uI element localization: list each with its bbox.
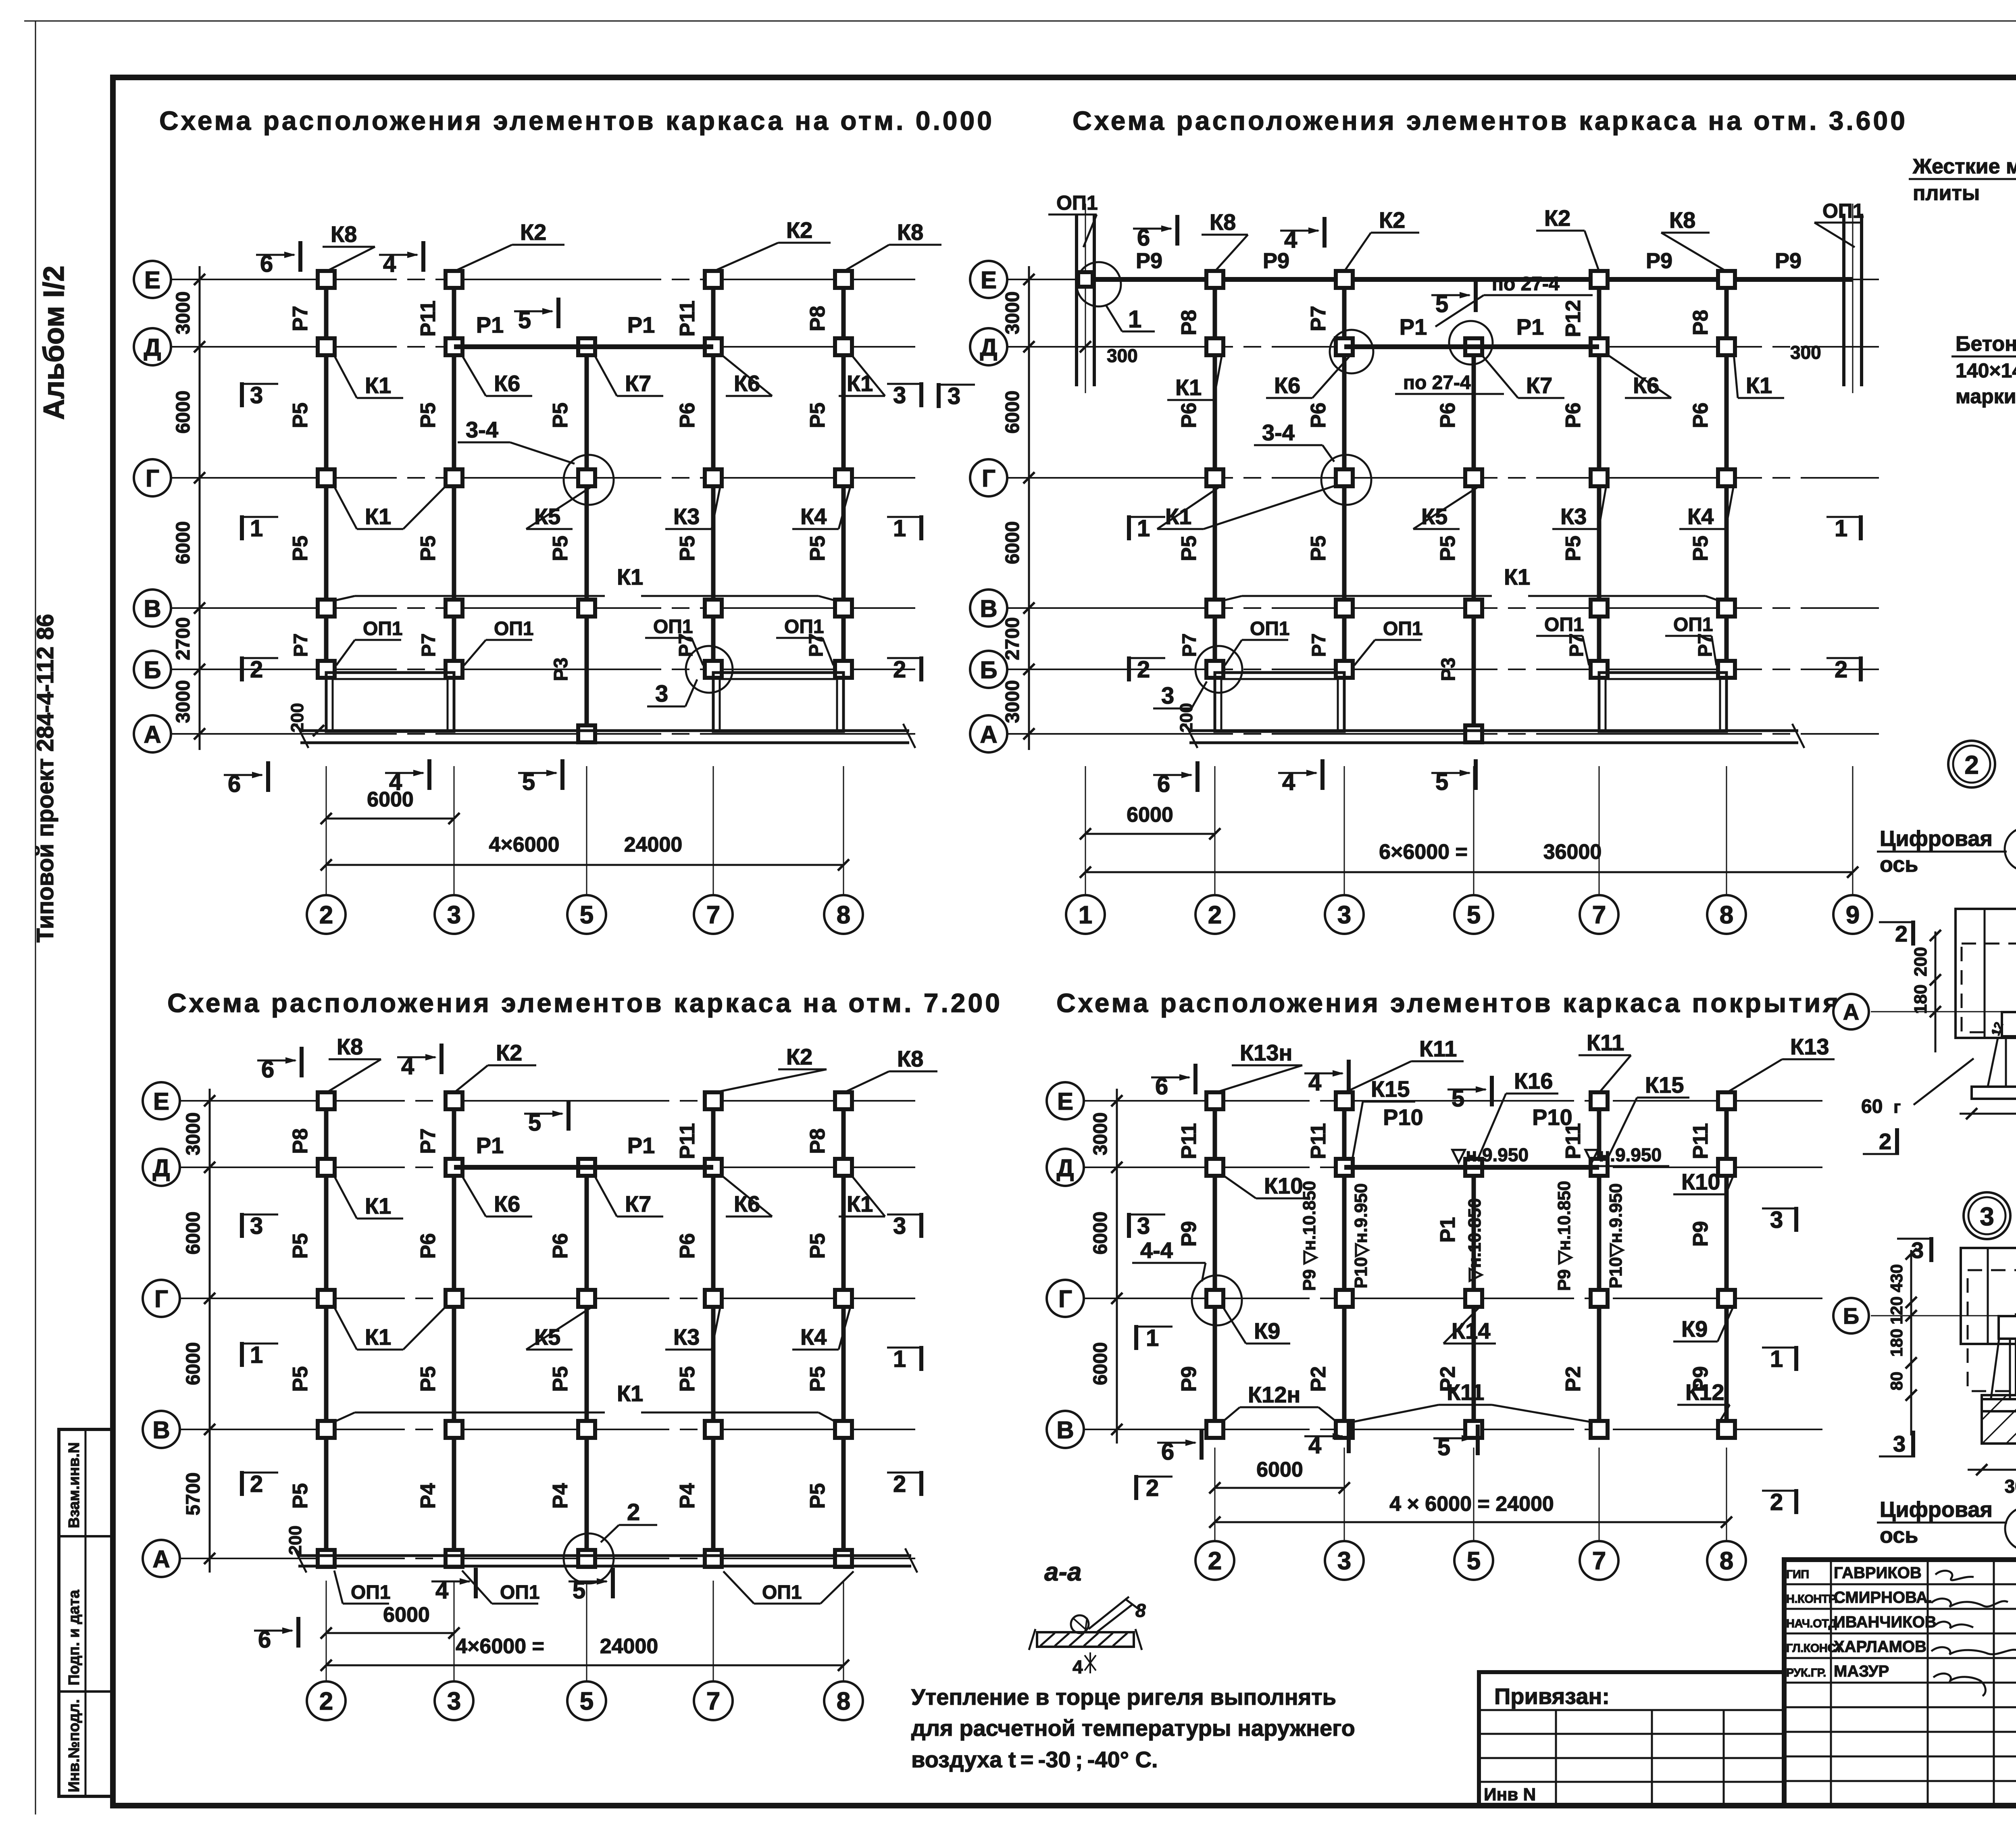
svg-text:Р5: Р5 <box>806 535 829 561</box>
svg-text:Д: Д <box>980 334 998 361</box>
svg-text:К1: К1 <box>365 1324 391 1350</box>
svg-text:3: 3 <box>1337 901 1351 929</box>
svg-text:3: 3 <box>447 1687 461 1715</box>
svg-text:1: 1 <box>1137 515 1150 542</box>
svg-text:В: В <box>980 595 997 622</box>
svg-text:Р9: Р9 <box>1177 1221 1201 1247</box>
PLAN 2: framing plan at elev 3.600 <box>1007 279 1879 280</box>
svg-text:3-4: 3-4 <box>466 417 498 442</box>
svg-text:К6: К6 <box>494 371 520 396</box>
svg-text:3: 3 <box>655 681 668 707</box>
svg-text:Р5: Р5 <box>417 535 440 561</box>
svg-text:4: 4 <box>401 1053 414 1079</box>
svg-text:1: 1 <box>893 515 906 542</box>
svg-text:Г: Г <box>1058 1285 1072 1312</box>
svg-text:6: 6 <box>228 771 241 797</box>
svg-text:Р1: Р1 <box>1436 1217 1460 1243</box>
svg-text:МАЗУР: МАЗУР <box>1834 1662 1889 1680</box>
svg-text:К4: К4 <box>1687 504 1714 529</box>
DETAIL node 3 <box>1964 1192 2010 1239</box>
svg-text:марки 200: марки 200 <box>1956 385 2016 408</box>
svg-text:Р5: Р5 <box>417 402 440 428</box>
svg-text:Е: Е <box>981 267 997 294</box>
svg-text:Р11: Р11 <box>1307 1123 1330 1159</box>
svg-text:3: 3 <box>447 901 461 929</box>
svg-text:300: 300 <box>1790 342 1821 363</box>
svg-text:6000: 6000 <box>367 788 414 811</box>
svg-text:для расчетной температуры нару: для расчетной температуры наружнего <box>911 1715 1355 1741</box>
svg-text:К1: К1 <box>847 1191 873 1217</box>
svg-text:6: 6 <box>261 1056 274 1083</box>
svg-text:Р7: Р7 <box>1307 306 1330 331</box>
svg-text:5: 5 <box>1452 1085 1464 1112</box>
svg-text:Р4: Р4 <box>676 1483 699 1509</box>
svg-text:К4: К4 <box>800 504 827 529</box>
svg-text:А: А <box>980 721 997 748</box>
svg-text:6000: 6000 <box>383 1603 430 1627</box>
svg-text:2: 2 <box>250 1471 263 1497</box>
svg-text:5: 5 <box>1467 1547 1481 1575</box>
svg-text:Г: Г <box>146 465 159 492</box>
svg-text:1: 1 <box>893 1346 906 1372</box>
svg-text:200: 200 <box>287 703 307 732</box>
svg-text:Р5: Р5 <box>1177 535 1201 561</box>
svg-text:3000: 3000 <box>1090 1112 1111 1156</box>
svg-text:ОП1: ОП1 <box>1056 192 1098 214</box>
svg-text:Г: Г <box>154 1285 168 1312</box>
svg-text:К4: К4 <box>800 1324 827 1350</box>
svg-text:▽н.9.950: ▽н.9.950 <box>1451 1144 1529 1165</box>
svg-text:г: г <box>1893 1097 1901 1117</box>
svg-text:Р10: Р10 <box>1383 1104 1423 1130</box>
svg-text:5: 5 <box>522 769 535 795</box>
svg-text:Н.КОНТР.: Н.КОНТР. <box>1786 1593 1837 1606</box>
svg-text:Р5: Р5 <box>549 402 572 428</box>
PLAN 4: roof framing plan <box>1084 1100 1822 1102</box>
svg-text:2: 2 <box>1895 921 1908 946</box>
svg-text:К8: К8 <box>331 221 357 247</box>
svg-text:Р6: Р6 <box>1177 402 1201 428</box>
svg-text:2: 2 <box>1770 1489 1783 1515</box>
svg-text:К2: К2 <box>496 1040 522 1065</box>
svg-text:3000: 3000 <box>1002 292 1023 335</box>
svg-text:Цифровая: Цифровая <box>1880 827 1993 851</box>
svg-text:Р9: Р9 <box>1646 249 1672 273</box>
svg-text:Р6: Р6 <box>676 402 699 428</box>
svg-text:Схема расположения элементов к: Схема расположения элементов каркаса на … <box>159 106 994 135</box>
svg-text:ОП1: ОП1 <box>1673 614 1713 635</box>
svg-text:В: В <box>144 595 161 622</box>
svg-text:К16: К16 <box>1514 1068 1553 1094</box>
svg-text:К12: К12 <box>1685 1379 1724 1405</box>
svg-text:К1: К1 <box>1175 375 1202 400</box>
svg-text:Цифровая: Цифровая <box>1880 1498 1993 1522</box>
svg-text:Жесткие минераловат.: Жесткие минераловат. <box>1912 155 2016 178</box>
svg-text:К15: К15 <box>1645 1072 1684 1098</box>
svg-text:1: 1 <box>1128 306 1141 333</box>
svg-text:К12н: К12н <box>1248 1382 1300 1407</box>
svg-text:2: 2 <box>319 1687 333 1715</box>
svg-text:4×6000: 4×6000 <box>489 833 560 856</box>
svg-text:80: 80 <box>1887 1372 1906 1391</box>
svg-text:Р7: Р7 <box>289 306 312 331</box>
svg-text:ОП1: ОП1 <box>351 1582 391 1603</box>
svg-text:Р5: Р5 <box>806 1483 829 1509</box>
svg-text:▽н.9.950: ▽н.9.950 <box>1584 1144 1662 1165</box>
svg-text:3: 3 <box>1911 1237 1924 1263</box>
svg-text:Р6: Р6 <box>1689 402 1712 428</box>
svg-text:6000: 6000 <box>1256 1458 1303 1481</box>
svg-text:Р7: Р7 <box>417 1128 440 1154</box>
svg-text:1: 1 <box>1770 1346 1783 1372</box>
svg-text:6000: 6000 <box>183 1212 204 1255</box>
svg-text:Р10▽н.9.950: Р10▽н.9.950 <box>1351 1183 1371 1288</box>
svg-text:по 27-4: по 27-4 <box>1492 273 1560 295</box>
svg-text:Р7: Р7 <box>418 633 439 657</box>
svg-text:Г: Г <box>982 465 996 492</box>
svg-text:9: 9 <box>1846 901 1860 929</box>
svg-text:6000: 6000 <box>1002 391 1023 434</box>
svg-text:5: 5 <box>580 1687 594 1715</box>
svg-text:7: 7 <box>706 1687 720 1715</box>
svg-text:плиты: плиты <box>1913 181 1980 205</box>
svg-text:по 27-4: по 27-4 <box>1403 372 1471 394</box>
svg-text:ОП1: ОП1 <box>1250 618 1290 640</box>
svg-text:Р5: Р5 <box>806 1233 829 1259</box>
svg-text:К1: К1 <box>365 1193 391 1219</box>
svg-text:Схема расположения элементов к: Схема расположения элементов каркаса пок… <box>1056 988 1841 1018</box>
svg-text:5: 5 <box>518 307 531 333</box>
svg-text:Р5: Р5 <box>417 1366 440 1392</box>
svg-text:Р5: Р5 <box>1562 535 1585 561</box>
svg-text:К11: К11 <box>1447 1379 1484 1405</box>
svg-text:140×140×520 из бетона: 140×140×520 из бетона <box>1956 359 2016 382</box>
svg-text:Р5: Р5 <box>806 1366 829 1392</box>
svg-text:Типовой проект 284-4-112 86: Типовой проект 284-4-112 86 <box>32 614 58 943</box>
svg-text:Р1: Р1 <box>627 1133 655 1158</box>
svg-text:ОП1: ОП1 <box>653 616 693 637</box>
svg-text:К2: К2 <box>786 1044 812 1069</box>
svg-text:ОП1: ОП1 <box>1544 614 1584 635</box>
svg-text:ОП1: ОП1 <box>1822 200 1864 222</box>
svg-text:К13н: К13н <box>1240 1040 1292 1065</box>
svg-text:8: 8 <box>837 1687 850 1715</box>
svg-text:К7: К7 <box>625 1191 651 1217</box>
svg-text:Р10: Р10 <box>1532 1104 1572 1130</box>
svg-text:К1: К1 <box>617 1381 643 1406</box>
svg-text:6000: 6000 <box>1090 1212 1111 1255</box>
svg-text:Р10▽н.9.950: Р10▽н.9.950 <box>1606 1183 1626 1288</box>
svg-text:К15: К15 <box>1371 1076 1410 1102</box>
svg-text:4: 4 <box>383 251 396 277</box>
svg-text:6000: 6000 <box>1127 803 1173 827</box>
svg-text:К11: К11 <box>1419 1036 1457 1061</box>
svg-text:Е: Е <box>144 267 160 294</box>
svg-text:К10: К10 <box>1264 1173 1303 1198</box>
svg-text:К6: К6 <box>1633 373 1659 398</box>
svg-text:3000: 3000 <box>173 680 194 723</box>
svg-text:Р9: Р9 <box>1177 1366 1201 1392</box>
svg-text:6000: 6000 <box>1090 1342 1111 1385</box>
svg-text:Р11: Р11 <box>676 1123 699 1159</box>
svg-text:Р3: Р3 <box>1438 658 1459 681</box>
svg-text:5: 5 <box>1435 291 1448 317</box>
svg-text:200: 200 <box>1911 947 1931 976</box>
svg-text:Подп. и дата: Подп. и дата <box>66 1589 83 1685</box>
svg-text:3: 3 <box>250 1213 263 1239</box>
svg-text:180: 180 <box>1887 1329 1906 1357</box>
svg-text:К8: К8 <box>897 1046 923 1071</box>
svg-text:К8: К8 <box>1669 207 1695 233</box>
svg-text:5: 5 <box>580 901 594 929</box>
svg-text:В: В <box>152 1417 170 1444</box>
svg-text:Р11: Р11 <box>417 300 440 337</box>
svg-text:3: 3 <box>893 1213 906 1239</box>
svg-text:6: 6 <box>258 1627 271 1653</box>
svg-text:3000: 3000 <box>173 292 194 335</box>
PLAN 1: framing plan at elev 0.000 <box>171 279 915 280</box>
svg-text:Д: Д <box>144 334 161 361</box>
svg-text:3: 3 <box>1337 1547 1351 1575</box>
svg-text:4: 4 <box>1073 1656 1083 1677</box>
svg-text:24000: 24000 <box>624 833 683 856</box>
svg-text:300: 300 <box>2005 1476 2016 1497</box>
svg-text:2: 2 <box>319 901 333 929</box>
svg-text:Р6: Р6 <box>549 1233 572 1259</box>
svg-text:6000: 6000 <box>173 521 194 565</box>
svg-text:ХАРЛАМОВ: ХАРЛАМОВ <box>1834 1638 1926 1656</box>
svg-text:2: 2 <box>1208 1547 1222 1575</box>
svg-text:Р1: Р1 <box>627 312 655 337</box>
svg-text:2: 2 <box>1879 1129 1891 1154</box>
svg-text:НАЧ.ОТД.: НАЧ.ОТД. <box>1786 1617 1839 1630</box>
svg-text:Р1: Р1 <box>1400 314 1427 340</box>
svg-text:Р8: Р8 <box>806 1128 829 1154</box>
svg-text:2: 2 <box>627 1499 640 1525</box>
svg-text:7: 7 <box>706 901 720 929</box>
svg-text:4: 4 <box>1282 769 1295 795</box>
svg-text:5: 5 <box>1437 1434 1450 1460</box>
DETAIL node 2 <box>1948 741 1995 787</box>
svg-text:К6: К6 <box>494 1191 520 1217</box>
svg-text:К3: К3 <box>673 504 700 529</box>
svg-text:К11: К11 <box>1587 1030 1624 1055</box>
svg-text:Р11: Р11 <box>676 300 699 337</box>
svg-text:Р6: Р6 <box>417 1233 440 1259</box>
left attached GOST stamp table <box>59 1429 113 1796</box>
svg-text:Взам.инв.N: Взам.инв.N <box>66 1442 83 1528</box>
svg-text:Р5: Р5 <box>289 1366 312 1392</box>
svg-text:а-а: а-а <box>1044 1557 1082 1586</box>
svg-text:7: 7 <box>1592 1547 1606 1575</box>
privyazan block <box>1479 1672 1784 1806</box>
svg-text:6: 6 <box>1137 225 1150 251</box>
svg-text:1: 1 <box>1835 515 1847 542</box>
svg-text:5700: 5700 <box>183 1473 204 1516</box>
svg-text:К3: К3 <box>1560 504 1587 529</box>
svg-text:Р4: Р4 <box>549 1483 572 1509</box>
svg-text:Р1: Р1 <box>476 312 504 337</box>
svg-text:ОП1: ОП1 <box>762 1582 802 1603</box>
svg-text:Р11: Р11 <box>1689 1123 1712 1159</box>
svg-text:4: 4 <box>1308 1432 1321 1458</box>
svg-text:Р5: Р5 <box>289 402 312 428</box>
svg-text:Р5: Р5 <box>1689 535 1712 561</box>
svg-text:Схема расположения элементов к: Схема расположения элементов каркаса на … <box>167 988 1002 1018</box>
svg-text:РУК.ГР.: РУК.ГР. <box>1786 1667 1826 1679</box>
svg-text:К1: К1 <box>617 564 643 590</box>
svg-text:Р7: Р7 <box>1308 633 1330 657</box>
svg-text:воздуха t = -30 ; -40° С.: воздуха t = -30 ; -40° С. <box>911 1747 1158 1772</box>
svg-text:Р5: Р5 <box>676 1366 699 1392</box>
svg-text:Р11: Р11 <box>1177 1123 1201 1159</box>
svg-text:К6: К6 <box>1274 373 1300 398</box>
svg-text:Р8: Р8 <box>1177 310 1201 335</box>
svg-text:180: 180 <box>1911 984 1931 1014</box>
svg-text:ОП1: ОП1 <box>1383 618 1423 640</box>
svg-text:4-4: 4-4 <box>1140 1237 1173 1263</box>
svg-text:К9: К9 <box>1254 1318 1280 1344</box>
svg-text:ось: ось <box>1880 852 1918 877</box>
svg-text:Р5: Р5 <box>289 1233 312 1259</box>
svg-text:2700: 2700 <box>1002 617 1023 660</box>
svg-text:Р6: Р6 <box>1436 402 1460 428</box>
svg-text:К2: К2 <box>1379 207 1405 233</box>
svg-text:К8: К8 <box>1210 209 1236 235</box>
svg-text:3000: 3000 <box>183 1112 204 1156</box>
svg-text:Р5: Р5 <box>549 535 572 561</box>
svg-text:А: А <box>144 721 161 748</box>
svg-text:Р2: Р2 <box>1562 1366 1585 1392</box>
sheet trim lines <box>24 21 2016 22</box>
svg-text:Бетонный вкладыш: Бетонный вкладыш <box>1956 332 2016 356</box>
svg-text:4: 4 <box>1308 1069 1321 1096</box>
svg-text:60: 60 <box>1861 1096 1883 1117</box>
svg-text:Инв N: Инв N <box>1484 1785 1536 1804</box>
svg-text:К1: К1 <box>1746 373 1772 398</box>
svg-text:6000: 6000 <box>173 391 194 434</box>
svg-text:К10: К10 <box>1681 1169 1720 1194</box>
svg-text:К7: К7 <box>1526 373 1552 398</box>
svg-text:Р5: Р5 <box>289 1483 312 1509</box>
svg-text:4×6000 =: 4×6000 = <box>456 1635 544 1658</box>
svg-text:Е: Е <box>153 1088 169 1115</box>
svg-text:6000: 6000 <box>183 1342 204 1385</box>
svg-text:К1: К1 <box>365 373 391 398</box>
svg-text:Утепление в торце ригеля выпол: Утепление в торце ригеля выполнять <box>911 1684 1336 1710</box>
svg-text:Р5: Р5 <box>549 1366 572 1392</box>
svg-text:Б: Б <box>980 656 997 683</box>
svg-text:120: 120 <box>1887 1296 1906 1325</box>
svg-text:А: А <box>152 1546 170 1573</box>
svg-text:Р8: Р8 <box>806 306 829 331</box>
svg-text:К2: К2 <box>786 217 812 243</box>
svg-text:Р6: Р6 <box>676 1233 699 1259</box>
svg-text:3000: 3000 <box>1002 680 1023 723</box>
svg-text:К1: К1 <box>365 504 391 529</box>
svg-text:2: 2 <box>250 656 263 683</box>
svg-text:К2: К2 <box>520 219 546 245</box>
svg-text:200: 200 <box>285 1525 305 1555</box>
svg-text:Привязан:: Привязан: <box>1494 1683 1610 1709</box>
svg-text:4 × 6000 = 24000: 4 × 6000 = 24000 <box>1389 1492 1554 1516</box>
svg-text:5: 5 <box>528 1110 541 1136</box>
svg-text:Р9: Р9 <box>1263 249 1289 273</box>
svg-text:2: 2 <box>1208 901 1222 929</box>
svg-text:Е: Е <box>1057 1088 1073 1115</box>
svg-text:300: 300 <box>1107 345 1138 366</box>
svg-text:2: 2 <box>1146 1475 1159 1501</box>
svg-text:В: В <box>1056 1417 1074 1444</box>
svg-text:3: 3 <box>1893 1431 1906 1456</box>
svg-text:ОП1: ОП1 <box>363 618 403 640</box>
svg-text:2: 2 <box>1964 750 1979 779</box>
svg-text:Р7: Р7 <box>290 633 312 657</box>
svg-text:8: 8 <box>837 901 850 929</box>
svg-text:Р9: Р9 <box>1689 1221 1712 1247</box>
svg-text:6: 6 <box>260 251 273 277</box>
svg-text:ИВАНЧИКОВ: ИВАНЧИКОВ <box>1834 1613 1937 1631</box>
svg-text:24000: 24000 <box>600 1635 658 1658</box>
svg-text:3: 3 <box>948 383 960 409</box>
svg-text:Р5: Р5 <box>1307 535 1330 561</box>
svg-text:К3: К3 <box>673 1324 700 1350</box>
svg-text:Р1: Р1 <box>476 1133 504 1158</box>
svg-text:4: 4 <box>435 1577 448 1604</box>
svg-text:К2: К2 <box>1544 205 1570 231</box>
svg-text:6: 6 <box>1157 771 1170 797</box>
svg-text:2: 2 <box>1137 656 1150 683</box>
svg-text:5: 5 <box>1467 901 1481 929</box>
svg-text:Д: Д <box>1057 1154 1074 1181</box>
svg-text:8: 8 <box>1720 1547 1733 1575</box>
svg-text:К9: К9 <box>1681 1316 1708 1342</box>
svg-text:Р5: Р5 <box>289 535 312 561</box>
svg-text:3: 3 <box>893 382 906 408</box>
svg-text:Р9: Р9 <box>1136 249 1162 273</box>
svg-text:А: А <box>1843 999 1859 1025</box>
svg-text:ОП1: ОП1 <box>784 616 824 637</box>
svg-text:3: 3 <box>1137 1213 1150 1239</box>
svg-text:6: 6 <box>1161 1439 1174 1465</box>
svg-text:2: 2 <box>1835 656 1847 683</box>
svg-text:Р5: Р5 <box>1436 535 1460 561</box>
svg-text:36000: 36000 <box>1543 840 1602 864</box>
svg-text:1: 1 <box>1146 1325 1159 1351</box>
svg-text:3: 3 <box>1161 683 1174 709</box>
svg-text:Р6: Р6 <box>1307 402 1330 428</box>
svg-text:СМИРНОВА.: СМИРНОВА. <box>1834 1589 1932 1606</box>
svg-text:3: 3 <box>250 382 263 408</box>
svg-text:ОП1: ОП1 <box>500 1582 540 1603</box>
svg-text:3-4: 3-4 <box>1262 420 1295 445</box>
svg-text:К1: К1 <box>1504 564 1530 590</box>
svg-text:Р4: Р4 <box>417 1483 440 1509</box>
svg-text:ГАВРИКОВ: ГАВРИКОВ <box>1834 1564 1922 1582</box>
svg-text:200: 200 <box>1177 703 1196 732</box>
svg-text:6: 6 <box>1155 1073 1168 1100</box>
svg-text:1: 1 <box>250 1342 263 1368</box>
svg-text:5: 5 <box>1435 769 1448 795</box>
svg-text:Р8: Р8 <box>1689 310 1712 335</box>
svg-text:2: 2 <box>893 1471 906 1497</box>
svg-text:К8: К8 <box>337 1034 363 1059</box>
svg-text:8: 8 <box>1720 901 1733 929</box>
svg-text:Схема расположения элементов к: Схема расположения элементов каркаса на … <box>1073 106 1908 135</box>
svg-text:Р12: Р12 <box>1562 300 1585 337</box>
svg-text:Р5: Р5 <box>806 402 829 428</box>
svg-text:3: 3 <box>1770 1207 1783 1233</box>
